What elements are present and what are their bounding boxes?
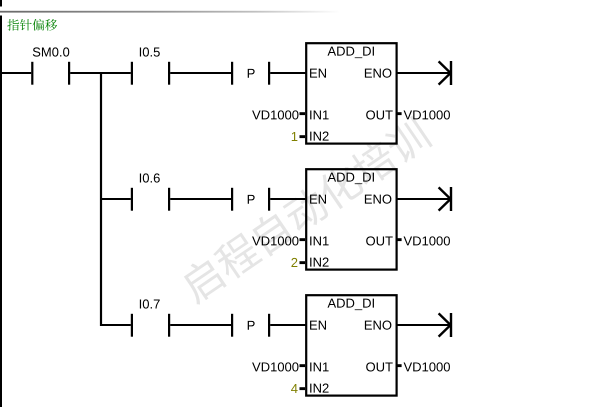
label SM0.0 bbox=[33, 47, 69, 56]
wire branch to contact I0.6 bbox=[100, 198, 131, 200]
previous network rail stub bbox=[0, 0, 2, 7]
contact SM0.0 bbox=[31, 62, 70, 85]
pin stub OUT (rung 3) bbox=[396, 364, 402, 367]
ADD_DI function block U1 bbox=[306, 43, 396, 143]
operand VD1000 at IN1 (rung 3) bbox=[252, 362, 298, 371]
wire edge contact to ADD_DI EN (rung 1) bbox=[270, 72, 306, 74]
label I0.6 bbox=[140, 173, 160, 182]
pin stub IN1 (rung 1) bbox=[300, 112, 306, 115]
wire edge contact to ADD_DI EN (rung 2) bbox=[270, 198, 306, 200]
contact I0.7 bbox=[131, 314, 170, 337]
operand VD1000 at OUT (rung 2) bbox=[404, 236, 450, 245]
ADD_DI function block U2 bbox=[306, 169, 396, 269]
wire ENO to arrow (rung 2) bbox=[396, 198, 450, 200]
contact I0.5 bbox=[131, 62, 170, 85]
ADD_DI function block U3 bbox=[306, 295, 396, 395]
network title 指针偏移 bbox=[7, 19, 57, 31]
pin stub IN2 (rung 1) bbox=[300, 135, 306, 138]
pin stub OUT (rung 2) bbox=[396, 238, 402, 241]
constant 4 at IN2 (rung 3) bbox=[291, 384, 298, 393]
wire I0.7 to edge contact bbox=[170, 324, 231, 326]
open branch arrow (rung 2) bbox=[439, 187, 453, 211]
operand VD1000 at OUT (rung 3) bbox=[404, 362, 450, 371]
positive edge contact P (rung 1) bbox=[231, 62, 270, 85]
label I0.7 bbox=[140, 299, 160, 308]
constant 1 at IN2 (rung 1) bbox=[292, 132, 298, 141]
positive edge contact P (rung 3) bbox=[231, 314, 270, 337]
wire I0.5 to edge contact bbox=[170, 72, 231, 74]
wire ENO to arrow (rung 1) bbox=[396, 72, 450, 74]
wire SM0.0 to contact I0.5 (through branch node) bbox=[70, 72, 131, 74]
open branch arrow (rung 1) bbox=[439, 61, 453, 85]
network separator line bbox=[0, 11, 340, 13]
wire edge contact to ADD_DI EN (rung 3) bbox=[270, 324, 306, 326]
operand VD1000 at OUT (rung 1) bbox=[404, 110, 450, 119]
open branch arrow (rung 3) bbox=[439, 313, 453, 337]
wire ENO to arrow (rung 3) bbox=[396, 324, 450, 326]
pin stub OUT (rung 1) bbox=[396, 112, 402, 115]
wire branch to contact I0.7 bbox=[100, 324, 131, 326]
operand VD1000 at IN1 (rung 2) bbox=[252, 236, 298, 245]
pin stub IN2 (rung 3) bbox=[300, 387, 306, 390]
constant 2 at IN2 (rung 2) bbox=[291, 258, 297, 267]
pin stub IN1 (rung 2) bbox=[300, 238, 306, 241]
wire I0.6 to edge contact bbox=[170, 198, 231, 200]
positive edge contact P (rung 2) bbox=[231, 188, 270, 211]
label I0.5 bbox=[140, 47, 160, 56]
watermark 启程自动化培训 bbox=[176, 114, 433, 306]
branch vertical wire bbox=[100, 72, 102, 326]
pin stub IN1 (rung 3) bbox=[300, 364, 306, 367]
pin stub IN2 (rung 2) bbox=[300, 261, 306, 264]
contact I0.6 bbox=[131, 188, 170, 211]
operand VD1000 at IN1 (rung 1) bbox=[252, 110, 298, 119]
wire rail to contact SM0.0 bbox=[0, 72, 31, 74]
left power rail bbox=[0, 16, 2, 407]
